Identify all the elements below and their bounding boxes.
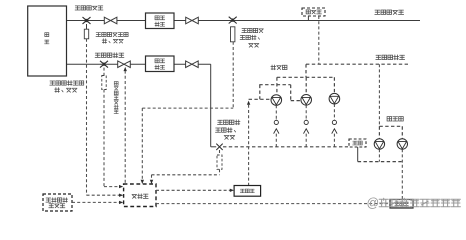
sensor secondary return T/P	[217, 150, 222, 169]
watermark	[367, 196, 461, 210]
wire heat meter tap	[307, 16, 309, 21]
label 循环泵	[271, 65, 287, 70]
wire VFD1 control riser	[247, 101, 250, 186]
wire pump aux bus	[249, 85, 301, 101]
controller box 控制器	[124, 184, 156, 207]
valve V2 primary supply	[104, 17, 117, 24]
label 二次网回水	[376, 55, 405, 60]
valve V3 secondary supply	[186, 17, 199, 24]
check valve and shutoff below pump P3	[332, 104, 337, 147]
wire return sensor signal to controller	[104, 90, 123, 189]
wire primary return pipe	[67, 64, 216, 147]
wire return sensor signal	[150, 169, 220, 184]
motor control valve V6 流量电动调节阀	[118, 61, 131, 68]
VFD1 box 变频器	[234, 186, 261, 197]
wire controller to VFD1	[156, 189, 234, 192]
wire makeup header	[379, 126, 402, 139]
wire pump P4 suction	[378, 149, 380, 161]
sensor secondary supply T/P	[231, 27, 235, 42]
check valve and shutoff below pump P2	[304, 105, 309, 147]
wire supply-T signal path	[141, 42, 234, 184]
label 二次网供水	[375, 10, 404, 14]
wire primary supply pipe	[67, 20, 420, 22]
valve V7 secondary return	[186, 61, 199, 68]
outdoor temperature sensor box 室外温度传感器	[43, 194, 72, 211]
heat exchanger HX2 box	[146, 56, 175, 72]
label 一次网供水	[75, 6, 103, 10]
wire pump3 feed drop	[333, 77, 335, 93]
heat meter box 热量表	[302, 8, 325, 16]
heat source box 热源	[28, 6, 67, 76]
label 流量电动调节阀	[114, 82, 118, 114]
wire pump discharge header	[223, 146, 348, 148]
wire pump P5 suction and VFD2 riser	[401, 149, 403, 199]
svg-text:@: @	[367, 196, 380, 210]
wire secondary return dashed pipe	[306, 63, 410, 65]
wire pump suction header	[277, 76, 335, 78]
wire supply sensor signal to controller	[87, 39, 124, 197]
wire controller-to-valve signal	[124, 67, 127, 184]
wire outdoor sensor signal	[72, 201, 123, 204]
sensor primary return T/P	[102, 68, 106, 90]
valve tap V5 on primary return	[100, 61, 108, 68]
wire pump2 feed drop	[305, 77, 307, 94]
label 一次网供水温度、压力	[96, 32, 128, 43]
label 二次网供水温度、压力	[240, 28, 263, 47]
wire controller to VFD2	[156, 203, 390, 205]
heat exchanger HX1 box	[146, 13, 175, 29]
pump P5 makeup	[397, 139, 407, 149]
pump P3 circulation	[329, 93, 340, 104]
label 一次网回水温度、压力	[50, 81, 84, 93]
wire heat meter signal drop	[318, 16, 320, 64]
pump P4 makeup	[374, 139, 384, 149]
label 补水泵	[387, 117, 403, 121]
label 二次网回水温度、压力	[215, 120, 240, 139]
sensor primary supply T/P	[84, 24, 88, 39]
pump P2 circulation	[301, 95, 312, 106]
wire pump1 feed drop	[276, 77, 278, 95]
valve tap V4 secondary supply	[229, 17, 237, 24]
check valve and shutoff below pump P1	[274, 105, 279, 147]
water tank box 水箱	[349, 139, 366, 147]
pump P1 circulation	[271, 95, 282, 106]
wire tank outlet	[358, 147, 403, 162]
valve tap V1 on primary supply	[83, 17, 91, 24]
wire makeup riser to return	[378, 64, 380, 126]
valve X V8 near return tap	[216, 144, 222, 150]
wire pump suction drop	[305, 64, 307, 77]
VFD2 box 变频器	[390, 200, 413, 209]
label 一次网回水	[95, 53, 124, 58]
